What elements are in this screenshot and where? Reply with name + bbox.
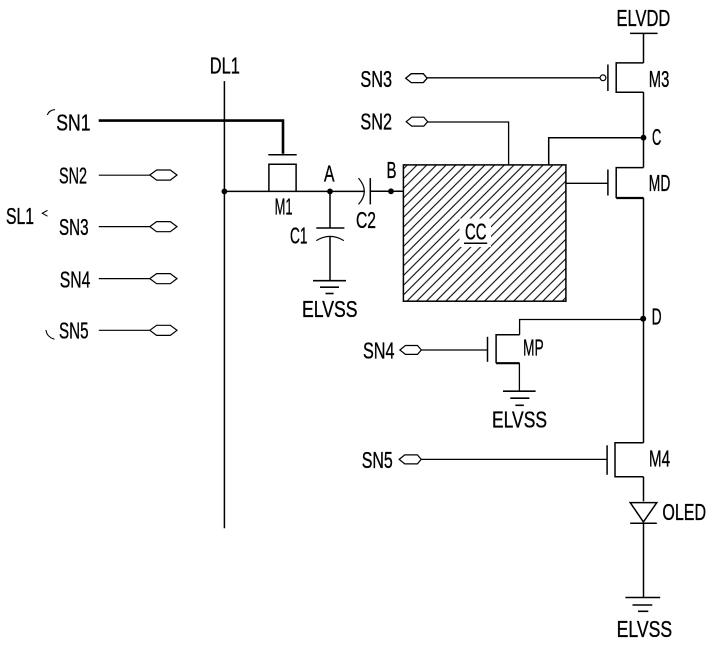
wire stub SN5 left xyxy=(99,329,150,331)
node A xyxy=(327,189,333,195)
svg-text:C2: C2 xyxy=(356,207,376,233)
ground ELVSS under MP xyxy=(503,391,536,405)
svg-text:ELVSS: ELVSS xyxy=(617,616,673,642)
svg-text:A: A xyxy=(324,161,335,187)
ground ELVSS under C1 xyxy=(313,281,346,294)
svg-text:C1: C1 xyxy=(290,223,308,249)
terminal oval SN5 xyxy=(399,455,421,464)
capacitor C2 xyxy=(359,178,404,204)
label CC (underlined, on white patch) xyxy=(460,219,492,248)
svg-text:ELVSS: ELVSS xyxy=(492,406,547,432)
svg-text:ELVSS: ELVSS xyxy=(302,296,358,322)
svg-text:OLED: OLED xyxy=(662,499,706,525)
wire M4 source to OLED xyxy=(643,477,645,502)
wire node C to CC box top xyxy=(549,138,644,165)
svg-text:SN1: SN1 xyxy=(56,109,90,135)
junction dot on DL1 xyxy=(222,189,228,195)
transistor M1 xyxy=(268,155,296,192)
wire node D to MP drain xyxy=(520,320,644,335)
brace arrow point xyxy=(42,210,47,216)
node D xyxy=(640,316,646,322)
svg-text:SL1: SL1 xyxy=(6,203,34,229)
data line DL1 xyxy=(223,81,225,528)
power terminal bar ELVDD xyxy=(630,32,658,34)
block CC hatched box xyxy=(403,165,566,301)
node B xyxy=(388,188,394,194)
terminal oval SN3 left xyxy=(150,222,177,232)
terminal oval SN2 schematic xyxy=(406,117,428,126)
svg-text:CC: CC xyxy=(465,219,487,245)
svg-text:ELVDD: ELVDD xyxy=(617,5,671,31)
transistor MD xyxy=(608,168,644,198)
wire stub SN2 left xyxy=(99,174,150,176)
transistor M3 (PMOS, bubble on gate) xyxy=(600,63,643,92)
wire MD source to node D xyxy=(643,198,645,319)
transistor MP xyxy=(488,335,520,363)
svg-text:D: D xyxy=(652,304,662,330)
terminal oval SN2 left xyxy=(150,170,177,180)
svg-text:M1: M1 xyxy=(275,193,293,219)
terminal oval SN4 left xyxy=(150,274,177,284)
wire OLED to bottom ground xyxy=(643,523,645,597)
ground ELVSS bottom xyxy=(625,598,660,612)
svg-text:B: B xyxy=(387,157,397,183)
wire stub SN3 left xyxy=(99,226,150,228)
wire ELVDD to M3 drain xyxy=(643,33,645,63)
svg-text:MD: MD xyxy=(649,170,671,196)
wire SN2 to CC box top xyxy=(428,122,509,165)
diode OLED xyxy=(630,503,657,524)
wire SN3 to M3 gate xyxy=(427,77,600,79)
wire M3 to node C xyxy=(643,92,645,138)
svg-text:MP: MP xyxy=(523,335,544,361)
node C xyxy=(641,135,647,141)
wire C1 to ground xyxy=(329,236,331,281)
terminal oval SN5 left xyxy=(150,325,177,335)
wire node D to M4 drain xyxy=(643,319,645,443)
terminal oval SN3 xyxy=(406,74,427,83)
svg-text:DL1: DL1 xyxy=(210,52,240,78)
svg-text:SN2: SN2 xyxy=(360,109,392,135)
wire stub SN4 left xyxy=(99,278,150,280)
svg-text:SN3: SN3 xyxy=(59,214,89,240)
svg-text:M3: M3 xyxy=(649,66,670,92)
terminal oval SN4 xyxy=(400,346,421,355)
svg-text:C: C xyxy=(652,124,661,150)
brace bottom hook near SN5 xyxy=(46,330,55,339)
wire SN5 to M4 gate xyxy=(421,458,607,460)
svg-text:SN4: SN4 xyxy=(363,337,395,363)
svg-text:M4: M4 xyxy=(649,445,670,471)
wire DL1 to C2 through node A xyxy=(224,190,364,192)
svg-text:SN4: SN4 xyxy=(60,267,91,293)
svg-text:SN3: SN3 xyxy=(360,66,392,92)
transistor M4 xyxy=(607,443,643,477)
wire MP source to ground xyxy=(518,363,520,391)
wire CC box to MD gate xyxy=(566,182,608,184)
capacitor C1 xyxy=(316,191,344,240)
svg-text:SN2: SN2 xyxy=(59,162,87,188)
svg-text:SN5: SN5 xyxy=(59,318,89,344)
svg-text:SN5: SN5 xyxy=(362,447,393,473)
wire SN4 to MP gate xyxy=(421,349,487,351)
brace top hook near SN1 xyxy=(47,110,55,115)
wire node C to MD drain xyxy=(643,138,645,168)
wire SN1 to M1 gate (thick) xyxy=(99,121,283,154)
